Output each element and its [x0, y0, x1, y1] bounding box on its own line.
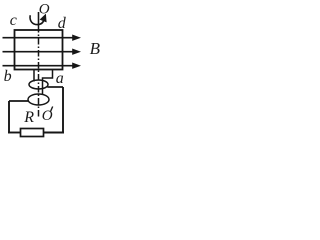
slip ring 2 [28, 94, 49, 105]
axis OO' dash-dot [38, 12, 40, 117]
coil lead right (to ring 2) [43, 70, 53, 95]
coil lead left (to ring 1) [33, 70, 35, 82]
svg-text:d: d [58, 15, 67, 32]
slip ring 1 [29, 80, 48, 89]
resistor R box [21, 129, 44, 137]
svg-text:B: B [90, 39, 101, 58]
brush wire right [47, 86, 63, 88]
svg-text:O: O [39, 2, 50, 18]
svg-text:R: R [23, 109, 34, 126]
coil frame abcd [15, 30, 63, 70]
wire bottom left [8, 132, 21, 134]
wire left vertical [8, 101, 10, 133]
wire right vertical [62, 87, 64, 133]
background [0, 0, 104, 144]
field line B middle [3, 49, 82, 55]
svg-text:a: a [56, 70, 64, 87]
brush wire left [9, 100, 29, 102]
field line B bottom [3, 63, 82, 69]
rotation arrow around axis [30, 14, 47, 25]
wire bottom right [44, 132, 65, 134]
svg-text:c: c [10, 12, 17, 29]
label O prime mark [50, 107, 52, 113]
field line B top [3, 35, 82, 41]
svg-text:b: b [4, 68, 12, 85]
